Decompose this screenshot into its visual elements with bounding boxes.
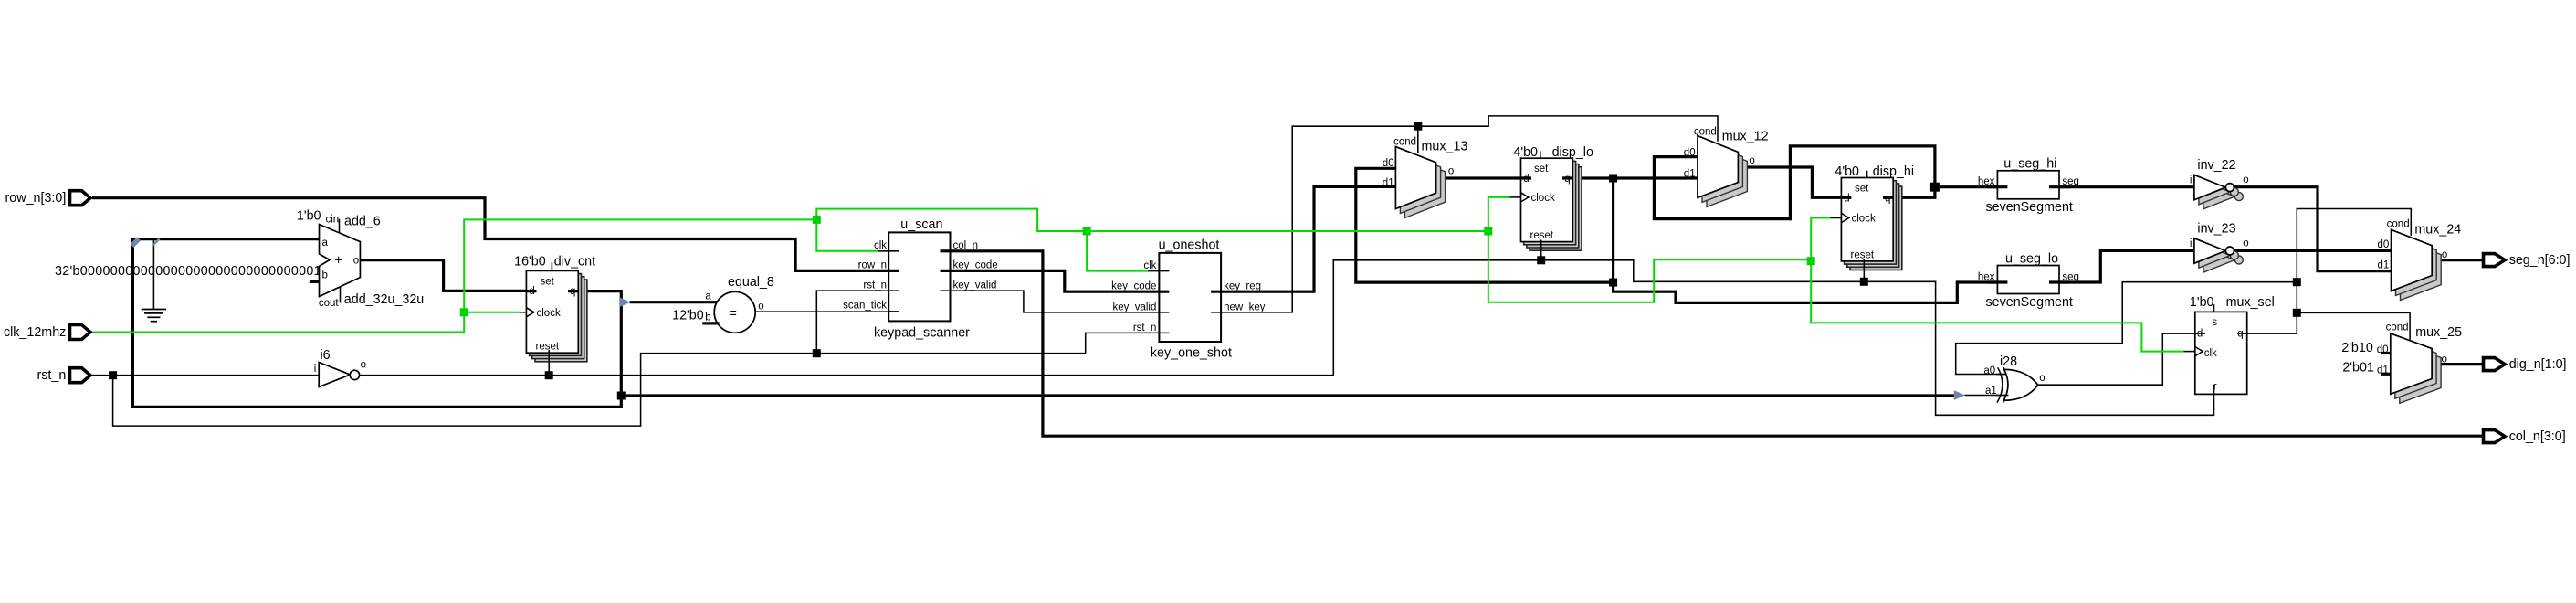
green junction div_cnt clock: [460, 308, 468, 316]
port row_n[3:0]: [5, 191, 90, 206]
svg-text:key_valid: key_valid: [1112, 301, 1156, 312]
register mux_sel: [2190, 295, 2275, 394]
svg-text:row_n: row_n: [858, 260, 887, 271]
wire mux_13 cond drop: [1417, 126, 1419, 153]
wire mux_13 o to disp_lo d: [1435, 176, 1531, 179]
svg-text:clock: clock: [1531, 193, 1555, 204]
svg-text:=: =: [730, 306, 737, 321]
port col_n[3:0]: [2484, 429, 2566, 444]
inverter i6: [314, 348, 366, 387]
black clk tail div_cnt: [520, 312, 528, 313]
wire div_cnt reset stub: [548, 360, 550, 376]
svg-text:i: i: [2190, 238, 2192, 249]
svg-text:d: d: [529, 286, 534, 297]
svg-text:disp_hi: disp_hi: [1873, 164, 1914, 179]
module u_seg_lo sevenSegment: [1978, 251, 2079, 309]
svg-text:dig_n[1:0]: dig_n[1:0]: [2509, 357, 2567, 372]
black clk tail disp_lo: [1510, 196, 1522, 198]
wire mux_sel q to mux_25 cond: [2297, 312, 2410, 340]
wire mux_sel q feedback: [2237, 209, 2411, 334]
wire green to mux_sel clk: [1811, 261, 2183, 352]
junction mux_sel q to mux_25 cond: [2293, 309, 2301, 317]
svg-text:u_seg_lo: u_seg_lo: [2005, 251, 2058, 266]
wire key_reg u_oneshot to mux_13 d1: [1211, 186, 1397, 291]
green junction disp_hi clock: [1807, 257, 1815, 265]
svg-text:o: o: [361, 359, 366, 370]
junction mux_sel q to i28 a0: [2293, 278, 2301, 286]
wire key_code u_scan to u_oneshot: [941, 270, 1170, 291]
svg-text:a: a: [705, 291, 711, 302]
svg-text:2'b01: 2'b01: [2342, 360, 2374, 375]
wire inv_22 o to mux_24 d1: [2234, 187, 2392, 271]
wire mux_25 d1 const stub: [2381, 373, 2392, 376]
svg-text:mux_12: mux_12: [1722, 130, 1769, 144]
svg-text:q: q: [1885, 193, 1890, 204]
svg-text:inv_22: inv_22: [2197, 158, 2235, 173]
register disp_hi: [1835, 164, 1914, 270]
svg-text:o: o: [2243, 175, 2248, 185]
svg-text:div_cnt: div_cnt: [554, 254, 595, 269]
svg-text:keypad_scanner: keypad_scanner: [874, 325, 970, 340]
wire disp_lo q down branch: [1612, 178, 1614, 282]
wire rst_n branch to u_scan and u_oneshot rst: [113, 333, 1170, 426]
wire green to u_oneshot clk: [1087, 231, 1150, 271]
wire q bus tap to equal_8 a: [630, 301, 719, 303]
svg-text:4'b0: 4'b0: [1513, 145, 1538, 160]
svg-text:clk_12mhz: clk_12mhz: [4, 325, 66, 340]
circle equal_8: [672, 275, 774, 333]
junction disp_lo q lower: [1609, 279, 1617, 287]
wire inv_23 o to mux_24 d0: [2234, 249, 2392, 252]
svg-text:key_code: key_code: [1111, 281, 1156, 292]
svg-text:clk: clk: [2204, 348, 2217, 359]
inverter inv_22: [2190, 158, 2249, 209]
svg-text:key_one_shot: key_one_shot: [1151, 346, 1232, 361]
port dig_n[1:0]: [2484, 357, 2567, 372]
svg-text:mux_25: mux_25: [2415, 325, 2462, 340]
wire div_cnt q feedback to adder a: [132, 239, 621, 407]
svg-text:seg_n[6:0]: seg_n[6:0]: [2509, 253, 2571, 268]
svg-text:mux_24: mux_24: [2414, 223, 2461, 238]
svg-text:mux_sel: mux_sel: [2226, 295, 2275, 310]
wire row_n from port to u_scan row_n: [92, 198, 899, 271]
mux mux_13: [1383, 136, 1468, 217]
wire u_seg_lo seg to inv_23: [2049, 250, 2195, 282]
svg-text:clock: clock: [1852, 214, 1876, 225]
wire constant upper bits to ground: [152, 239, 154, 310]
module u_scan keypad_scanner: [843, 217, 998, 341]
svg-text:i: i: [2190, 175, 2192, 185]
black clk tail disp_hi: [1831, 217, 1843, 219]
wire adder o to div_cnt d: [360, 260, 536, 291]
svg-text:add_6: add_6: [344, 215, 381, 229]
wire rst_n port to i6 input: [92, 375, 320, 376]
svg-text:sevenSegment: sevenSegment: [1986, 295, 2073, 310]
svg-text:cin: cin: [326, 215, 340, 226]
svg-text:inv_23: inv_23: [2197, 222, 2235, 237]
svg-text:o: o: [758, 301, 763, 312]
svg-text:col_n[3:0]: col_n[3:0]: [2509, 429, 2566, 444]
svg-text:o: o: [353, 256, 359, 267]
svg-text:cond: cond: [2386, 323, 2409, 333]
wire key_valid u_scan to u_oneshot: [941, 291, 1170, 312]
junction reset at div_cnt: [545, 371, 553, 379]
register disp_lo: [1513, 145, 1593, 251]
svg-text:i28: i28: [2000, 354, 2017, 369]
junction new_key at mux_13 cond: [1414, 122, 1422, 131]
black clk stub u_oneshot: [1148, 270, 1169, 272]
svg-text:key_code: key_code: [953, 260, 998, 271]
junction reset at disp_lo: [1537, 256, 1545, 264]
svg-text:16'b0: 16'b0: [514, 254, 546, 269]
svg-text:clk: clk: [1143, 260, 1156, 271]
svg-text:disp_lo: disp_lo: [1552, 145, 1593, 160]
svg-text:reset: reset: [1851, 249, 1875, 260]
svg-text:1'b0: 1'b0: [297, 209, 321, 224]
wire disp_hi q loop to mux_12 d0: [1654, 146, 1934, 219]
svg-text:12'b0: 12'b0: [672, 309, 704, 323]
svg-text:d1: d1: [2378, 259, 2390, 270]
port seg_n[6:0]: [2484, 253, 2571, 268]
svg-text:o: o: [2039, 373, 2045, 384]
wire mux_sel q to i28 a0: [1956, 282, 2297, 375]
bus tap arrow equal_8 a: [619, 297, 630, 307]
xor gate i28: [1983, 354, 2045, 403]
junction reset at disp_hi: [1860, 278, 1868, 286]
svg-text:sevenSegment: sevenSegment: [1986, 200, 2073, 215]
junction disp_lo q: [1609, 175, 1617, 183]
svg-text:a1: a1: [1985, 386, 1997, 397]
svg-text:rst_n: rst_n: [863, 280, 887, 291]
svg-text:reset: reset: [536, 341, 560, 352]
bus tap arrow i28 a1: [1954, 390, 1965, 400]
wire disp_hi reset stub: [1863, 268, 1865, 281]
svg-text:add_32u_32u: add_32u_32u: [344, 292, 424, 307]
wire green to disp_hi clock: [1488, 218, 1831, 302]
svg-text:clk: clk: [874, 240, 887, 251]
mux mux_24: [2378, 218, 2462, 300]
svg-text:d: d: [1523, 174, 1529, 185]
mux mux_12: [1684, 127, 1769, 207]
inverter inv_23: [2190, 222, 2249, 273]
ground: [142, 310, 166, 322]
svg-text:col_n: col_n: [953, 240, 979, 251]
wire q bus long to i28 a1: [621, 394, 1954, 397]
green junction u_oneshot clk: [1083, 227, 1091, 236]
svg-text:4'b0: 4'b0: [1835, 164, 1859, 179]
svg-text:key_reg: key_reg: [1224, 281, 1261, 292]
black clk tail mux_sel: [2183, 351, 2195, 353]
wire adder cout stub: [340, 286, 342, 303]
wire mux_12 o to disp_hi d: [1738, 167, 1851, 197]
wire clk_12mhz green net: [92, 312, 520, 333]
adder add_6: [297, 209, 424, 309]
wire i28 o to mux_sel d: [2037, 333, 2205, 385]
wire disp_lo reset stub: [1540, 249, 1542, 260]
junction div q bus at y433: [617, 392, 626, 400]
svg-text:o: o: [2442, 249, 2447, 260]
register div_cnt: [514, 254, 595, 362]
svg-text:d1: d1: [2377, 365, 2389, 376]
wire disp_lo q to mux_13 d0 feedback: [1356, 168, 1614, 282]
svg-text:rst_n: rst_n: [37, 368, 67, 383]
svg-text:d0: d0: [1383, 158, 1394, 169]
junction disp_hi q: [1930, 183, 1940, 192]
wire new_key to mux conds: [1211, 116, 1718, 312]
svg-text:1'b0: 1'b0: [2190, 295, 2214, 310]
svg-text:u_seg_hi: u_seg_hi: [2003, 157, 2056, 172]
bus slash marks on adder a: [131, 238, 139, 246]
svg-text:d: d: [1844, 193, 1849, 204]
svg-text:d1: d1: [1684, 169, 1696, 180]
svg-text:mux_13: mux_13: [1422, 140, 1468, 154]
svg-text:new_key: new_key: [1224, 301, 1266, 312]
black clk stub u_scan: [878, 250, 899, 252]
svg-text:cout: cout: [319, 298, 340, 309]
svg-text:s: s: [2212, 317, 2217, 328]
svg-text:q: q: [570, 286, 575, 297]
svg-text:u_oneshot: u_oneshot: [1159, 238, 1220, 253]
junction rst_n: [109, 371, 117, 379]
svg-text:r: r: [2213, 381, 2217, 392]
green junction disp_lo clock: [1484, 227, 1492, 236]
wire mux_25 d0 const stub: [2381, 352, 2392, 354]
svg-text:o: o: [1448, 165, 1454, 176]
port rst_n: [37, 368, 90, 383]
svg-text:u_scan: u_scan: [900, 217, 942, 232]
wire mux_25 o to dig_n port: [2432, 363, 2482, 365]
svg-text:set: set: [1855, 183, 1869, 194]
svg-text:scan_tick: scan_tick: [843, 300, 887, 311]
svg-text:set: set: [1534, 164, 1549, 175]
wire mux_24 o to seg_n port: [2432, 259, 2483, 261]
svg-text:o: o: [1749, 155, 1754, 166]
wire green to disp_lo clock: [1488, 197, 1510, 231]
svg-text:q: q: [1564, 174, 1570, 185]
svg-text:d0: d0: [1684, 147, 1696, 158]
svg-text:cond: cond: [1694, 127, 1717, 138]
svg-text:clock: clock: [537, 308, 561, 319]
junction rst_n at u_scan branch: [813, 349, 821, 357]
mux mux_25: [2341, 323, 2462, 404]
svg-text:d: d: [2197, 329, 2203, 340]
svg-text:b: b: [322, 270, 328, 281]
wire u_scan rst_n riser: [816, 291, 899, 354]
module u_oneshot key_one_shot: [1111, 238, 1266, 361]
svg-text:b: b: [705, 312, 710, 323]
wire col_n from u_scan to port: [941, 251, 2485, 436]
wire equal_8 o to u_scan scan_tick: [755, 311, 899, 312]
svg-text:32'b00000000000000000000000000: 32'b00000000000000000000000000000001: [55, 264, 321, 279]
svg-text:2'b10: 2'b10: [2341, 341, 2373, 355]
wire i28 a1 stub: [1965, 395, 2009, 397]
svg-text:o: o: [2243, 238, 2248, 249]
wire u_seg_hi seg to inv_22: [2049, 185, 2195, 188]
wire disp_lo q to u_seg_lo hex: [1614, 282, 2008, 302]
svg-text:i6: i6: [321, 348, 331, 363]
wire green trunk east: [816, 209, 1488, 231]
green junction u_scan clk: [813, 216, 821, 224]
svg-text:i: i: [314, 364, 317, 375]
svg-text:key_valid: key_valid: [953, 280, 997, 291]
svg-text:set: set: [541, 277, 555, 288]
wire disp_hi q to u_seg_hi hex: [1935, 185, 2008, 188]
svg-text:a: a: [322, 238, 329, 249]
svg-text:cond: cond: [1393, 136, 1416, 147]
svg-text:+: +: [335, 254, 342, 269]
svg-text:equal_8: equal_8: [728, 275, 774, 290]
wire green to u_scan clk: [464, 219, 878, 312]
svg-text:d0: d0: [2378, 239, 2390, 250]
svg-text:a0: a0: [1983, 365, 1995, 376]
svg-text:reset: reset: [1530, 230, 1554, 241]
wire disp_lo q to mux_12 d1: [1562, 176, 1698, 179]
svg-text:d0: d0: [2377, 344, 2389, 355]
svg-text:row_n[3:0]: row_n[3:0]: [5, 191, 67, 206]
svg-text:cond: cond: [2387, 218, 2410, 229]
wire adder cin stub: [339, 219, 341, 233]
module u_seg_hi sevenSegment: [1978, 157, 2079, 215]
svg-text:q: q: [2237, 329, 2243, 340]
svg-text:d1: d1: [1383, 178, 1394, 189]
svg-text:rst_n: rst_n: [1133, 323, 1157, 333]
wire adder b stub: [310, 280, 321, 283]
svg-text:o: o: [2442, 354, 2447, 365]
wire i6 output reset distribution: [359, 260, 2214, 416]
port clk_12mhz: [4, 325, 90, 340]
